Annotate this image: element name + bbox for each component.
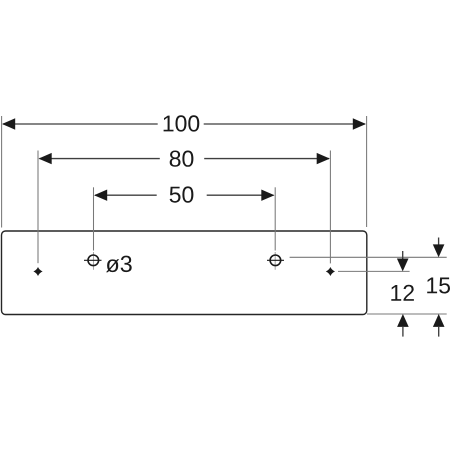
extension line left of dim 100	[1, 116, 3, 228]
hole left (o3) circle	[88, 255, 99, 266]
hole right (o3) circle	[270, 255, 281, 266]
dimension line 50	[95, 194, 157, 196]
label 15	[427, 278, 450, 294]
arrow up onto bottom line (12)	[402, 327, 404, 337]
label 12	[391, 285, 414, 301]
hole left crosshair	[84, 259, 102, 261]
arrowhead right dim 100	[353, 118, 366, 129]
arrowhead right dim 80	[317, 153, 330, 164]
fastening point marker right (diamond)	[326, 267, 335, 276]
arrowhead left dim 50	[94, 190, 107, 201]
extension line right of dim 50 (through right hole)	[274, 187, 276, 250]
fastening point marker left (diamond)	[33, 267, 42, 276]
label 50	[170, 186, 194, 202]
hole right crosshair	[267, 259, 284, 261]
label 80	[170, 151, 194, 167]
part outline (mounting plate)	[2, 231, 367, 315]
extension line left of dim 50 (through left hole)	[93, 187, 95, 250]
reference line 12 (marker height)	[338, 270, 410, 272]
arrow down onto 12 line	[402, 251, 404, 260]
arrowhead right dim 50	[261, 190, 274, 201]
arrow down onto 15 line	[438, 238, 440, 247]
dimension line 80	[40, 158, 160, 160]
extension line right of dim 100	[366, 116, 368, 227]
reference line bottom edge extension	[367, 313, 447, 315]
arrowhead left dim 80	[39, 153, 52, 164]
dimension line 100	[3, 123, 158, 125]
label o3	[106, 256, 132, 273]
extension line right of dim 80	[329, 151, 331, 264]
arrow up onto bottom line (15)	[438, 327, 440, 337]
label 100	[164, 115, 200, 131]
arrowhead left dim 100	[2, 118, 15, 129]
extension line left of dim 80	[37, 151, 39, 264]
reference line 15 (hole height)	[290, 256, 447, 258]
